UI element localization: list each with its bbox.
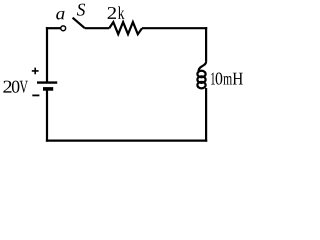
wire: switch pivot to resistor: [85, 27, 109, 29]
resistor 2k zigzag: [109, 22, 142, 34]
inductor value label 10mH: [211, 73, 243, 85]
wire: bottom side, bottom-right corner to bottom-left corner: [46, 140, 207, 142]
wire: left side, bottom-left corner up to battery - plate: [46, 89, 48, 141]
resistor value label 2 k: [108, 6, 125, 18]
source value label 20V: [3, 81, 28, 93]
switch S blade: [73, 18, 85, 29]
battery positive plate (long): [37, 81, 57, 83]
switch S label: [77, 4, 85, 16]
wire: left side, battery + plate up to top-left corner: [46, 27, 48, 83]
wire: right side, inductor bottom to bottom-right corner: [205, 88, 207, 142]
node a label: [56, 11, 64, 20]
node a terminal circle: [61, 26, 66, 31]
wire: top side, resistor to top-right corner: [142, 27, 207, 29]
battery plus sign: [32, 68, 39, 75]
inductor L coil: [197, 62, 206, 89]
wire: right side, top-right corner down to inductor top: [205, 27, 207, 62]
battery minus sign: [32, 94, 39, 96]
battery negative plate (short): [43, 87, 53, 91]
wire: top side, top-left corner to node a terminal: [46, 27, 61, 29]
